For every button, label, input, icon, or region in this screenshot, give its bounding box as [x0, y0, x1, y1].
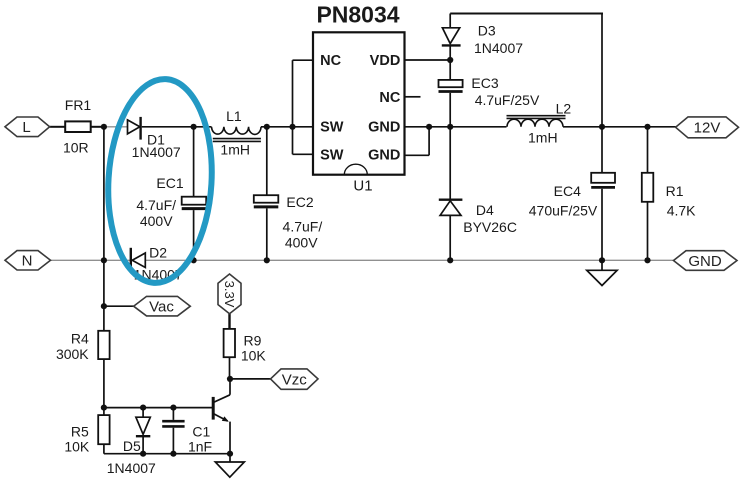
capacitor EC1	[136, 127, 206, 260]
svg-text:FR1: FR1	[65, 97, 92, 113]
svg-text:12V: 12V	[694, 120, 721, 137]
ground	[215, 454, 244, 478]
svg-text:1N4007: 1N4007	[132, 144, 181, 160]
svg-text:U1: U1	[353, 178, 372, 195]
svg-text:1N4007: 1N4007	[474, 40, 523, 56]
wire	[405, 126, 507, 128]
wire	[405, 59, 451, 61]
resistor R1	[642, 127, 696, 260]
port 12V	[676, 117, 739, 138]
node	[140, 451, 146, 457]
svg-text:3.3V: 3.3V	[222, 281, 237, 308]
svg-text:R4: R4	[71, 331, 89, 347]
svg-text:VDD: VDD	[370, 53, 401, 69]
svg-text:400V: 400V	[285, 234, 318, 250]
inductor L2	[507, 100, 572, 145]
wire vertical L-node to Vac/R4	[103, 127, 105, 331]
wire	[405, 96, 421, 98]
node	[447, 57, 453, 63]
node	[599, 124, 605, 130]
svg-text:C1: C1	[192, 424, 210, 440]
capacitor C1	[162, 408, 212, 455]
svg-text:SW: SW	[320, 120, 344, 136]
diode D3	[442, 14, 523, 80]
svg-text:N: N	[22, 253, 33, 270]
capacitor EC2	[254, 127, 323, 260]
wire	[91, 126, 104, 128]
node	[264, 124, 270, 130]
svg-text:10K: 10K	[241, 348, 267, 364]
svg-text:EC3: EC3	[471, 75, 498, 91]
op-amp U1 PN8034 IC	[313, 2, 405, 195]
svg-text:NC: NC	[379, 90, 400, 106]
node	[101, 124, 107, 130]
wire base row	[104, 407, 213, 409]
svg-text:D3: D3	[478, 23, 496, 39]
svg-text:4.7uF/: 4.7uF/	[136, 197, 176, 213]
port 3.3V	[218, 274, 241, 314]
port Vac	[134, 296, 191, 316]
node	[644, 257, 650, 263]
node	[426, 124, 432, 130]
node	[170, 451, 176, 457]
svg-text:1mH: 1mH	[220, 142, 250, 158]
svg-text:GND: GND	[368, 148, 400, 164]
diode D5	[107, 408, 156, 476]
svg-text:BYV26C: BYV26C	[463, 219, 517, 235]
wire	[428, 127, 430, 156]
svg-text:EC2: EC2	[286, 194, 313, 210]
node	[140, 405, 146, 411]
svg-text:1nF: 1nF	[188, 439, 212, 455]
svg-text:GND: GND	[688, 253, 722, 270]
node	[101, 303, 107, 309]
wire	[293, 59, 314, 61]
svg-text:PN8034: PN8034	[316, 2, 399, 28]
svg-text:4.7K: 4.7K	[667, 203, 696, 219]
svg-text:4.7uF/25V: 4.7uF/25V	[475, 92, 540, 108]
port N	[5, 251, 51, 270]
port Vzc	[271, 369, 319, 389]
resistor R9	[224, 314, 267, 379]
node	[101, 257, 107, 263]
svg-text:L2: L2	[556, 100, 572, 116]
capacitor EC4	[529, 127, 615, 260]
node	[289, 124, 295, 130]
node	[264, 257, 270, 263]
diode D2	[131, 245, 183, 283]
wire N/GND rail	[51, 259, 674, 261]
highlight ellipse	[103, 76, 218, 286]
node	[191, 124, 197, 130]
ground	[587, 260, 617, 285]
svg-text:Vzc: Vzc	[282, 371, 308, 388]
svg-text:1mH: 1mH	[528, 130, 558, 146]
wire	[230, 378, 271, 380]
inductor L1	[212, 108, 262, 158]
svg-text:D5: D5	[123, 438, 141, 454]
svg-text:R5: R5	[71, 424, 89, 440]
node	[101, 405, 107, 411]
wire	[450, 13, 603, 15]
svg-text:470uF/25V: 470uF/25V	[529, 203, 598, 219]
svg-text:1N4007: 1N4007	[107, 460, 156, 476]
svg-text:GND: GND	[368, 120, 400, 136]
svg-text:300K: 300K	[56, 346, 89, 362]
svg-text:D4: D4	[476, 202, 494, 218]
wire	[261, 126, 313, 128]
wire bottom row	[104, 453, 230, 455]
wire	[601, 14, 603, 127]
capacitor EC3	[439, 75, 540, 127]
node	[599, 257, 605, 263]
wire	[293, 153, 314, 155]
resistor R4	[56, 331, 110, 416]
wire	[142, 126, 212, 128]
wire	[104, 126, 128, 128]
svg-text:SW: SW	[320, 148, 344, 164]
svg-text:Vac: Vac	[149, 299, 174, 316]
wire	[563, 126, 676, 128]
wire	[405, 154, 430, 156]
svg-text:R9: R9	[244, 333, 262, 349]
svg-text:400V: 400V	[140, 213, 173, 229]
svg-text:EC4: EC4	[554, 183, 581, 199]
svg-text:NC: NC	[320, 53, 341, 69]
svg-text:EC1: EC1	[156, 175, 183, 191]
svg-text:L: L	[22, 119, 30, 136]
port L	[5, 117, 50, 137]
node	[227, 451, 233, 457]
node	[447, 124, 453, 130]
svg-text:R1: R1	[666, 183, 684, 199]
port GND	[674, 251, 738, 271]
resistor R5	[64, 415, 109, 454]
wire	[292, 60, 294, 154]
node	[191, 257, 197, 263]
node	[227, 376, 233, 382]
diode D4	[439, 127, 517, 260]
svg-text:L1: L1	[226, 108, 242, 124]
node	[644, 124, 650, 130]
transistor Q1	[213, 379, 230, 454]
svg-text:4.7uF/: 4.7uF/	[283, 219, 323, 235]
node	[170, 405, 176, 411]
svg-text:10R: 10R	[63, 140, 89, 156]
node	[447, 257, 453, 263]
wire	[104, 305, 134, 307]
svg-text:D2: D2	[149, 245, 167, 261]
resistor FR1	[63, 97, 91, 156]
wire	[50, 126, 66, 128]
diode D1	[128, 117, 181, 160]
svg-text:10K: 10K	[64, 439, 90, 455]
